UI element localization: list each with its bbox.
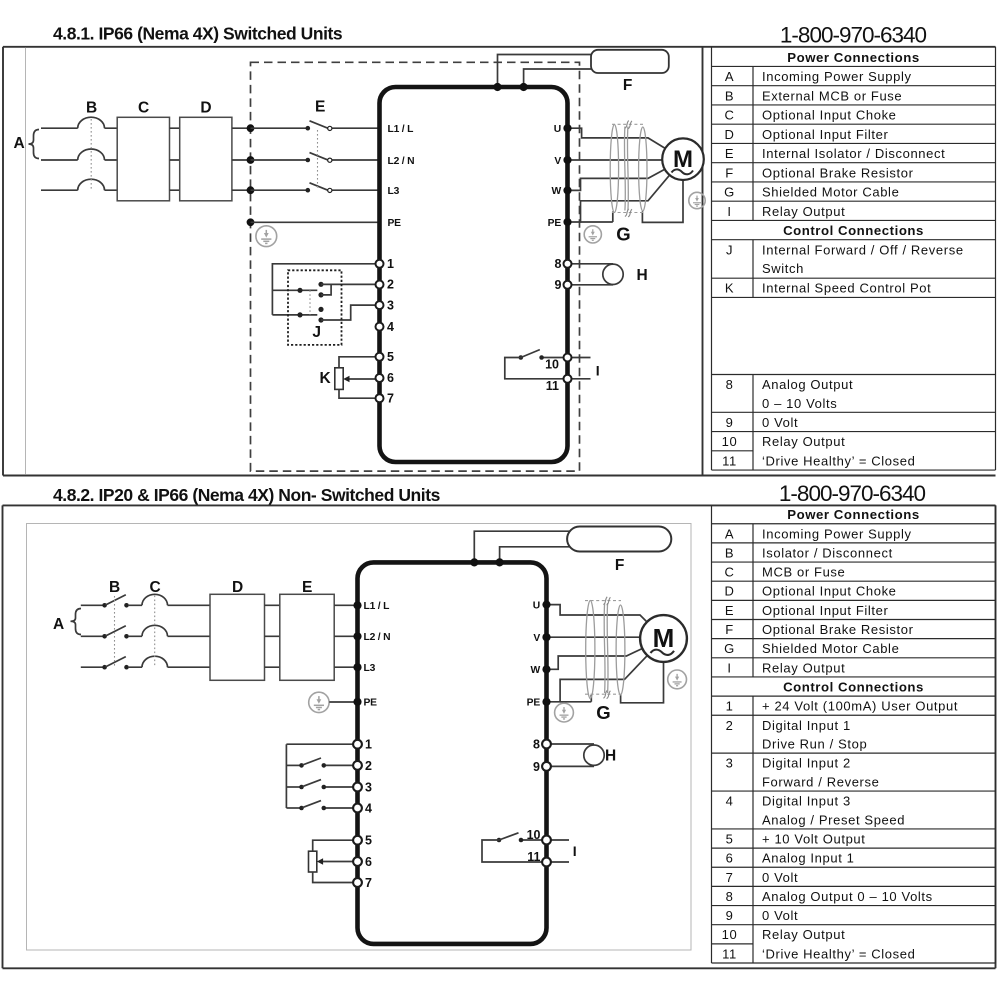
svg-text:10: 10 xyxy=(527,828,541,842)
svg-text:2: 2 xyxy=(387,278,394,292)
svg-text:C: C xyxy=(724,565,734,580)
svg-text:9: 9 xyxy=(726,415,734,430)
node brake 2 xyxy=(520,83,528,91)
frame section 2 xyxy=(3,505,996,968)
wire pot top 2 xyxy=(313,840,353,851)
wire L2 input xyxy=(41,159,117,161)
drive body 2 xyxy=(358,562,547,944)
relay output stubs xyxy=(572,358,591,379)
svg-text:7: 7 xyxy=(365,876,372,890)
pin 8-2 xyxy=(542,740,551,749)
brace A 2 xyxy=(71,609,82,635)
svg-text:2: 2 xyxy=(365,759,372,773)
svg-text:K: K xyxy=(320,370,332,387)
svg-text:4: 4 xyxy=(726,794,734,809)
relay switch I xyxy=(543,357,568,359)
terminal L2/N 2 xyxy=(353,632,361,640)
svg-text:Relay Output: Relay Output xyxy=(762,434,845,449)
wire U output xyxy=(568,128,666,148)
svg-text:4.8.2. IP20 & IP66 (Nema 4X) N: 4.8.2. IP20 & IP66 (Nema 4X) Non- Switch… xyxy=(53,485,441,505)
svg-text:Optional Input Filter: Optional Input Filter xyxy=(762,127,889,142)
svg-text:F: F xyxy=(725,165,734,180)
pin 7-2 xyxy=(353,878,362,887)
svg-text:Analog Input 1: Analog Input 1 xyxy=(762,851,855,866)
isolator B link xyxy=(114,596,116,666)
fuse C phase 2 xyxy=(142,625,168,636)
switch J pole2 wire xyxy=(272,314,317,316)
svg-text:G: G xyxy=(616,224,630,245)
svg-text:G: G xyxy=(596,702,610,723)
svg-text:Drive Run / Stop: Drive Run / Stop xyxy=(762,737,867,752)
switch J pole1 wire xyxy=(272,289,317,291)
svg-text:A: A xyxy=(53,616,64,633)
pin 2 xyxy=(376,281,384,289)
node brake 1 xyxy=(493,83,501,91)
svg-text:W: W xyxy=(530,665,540,676)
wire brake resistor 2 xyxy=(524,69,591,87)
svg-text:0 – 10 Volts: 0 – 10 Volts xyxy=(762,396,837,411)
svg-text:L3: L3 xyxy=(364,663,376,674)
svg-text:G: G xyxy=(724,185,735,200)
svg-text:J: J xyxy=(312,324,320,341)
svg-text:6: 6 xyxy=(365,855,372,869)
svg-text:Power Connections: Power Connections xyxy=(787,50,919,65)
svg-text:Shielded Motor Cable: Shielded Motor Cable xyxy=(762,641,899,656)
svg-text:4: 4 xyxy=(365,802,372,816)
svg-text:C: C xyxy=(724,108,734,123)
pin 7 xyxy=(376,394,384,402)
wire shield drain right 2 xyxy=(621,662,664,703)
wire to isolator phase2 xyxy=(251,159,380,161)
svg-text:Optional Input Choke: Optional Input Choke xyxy=(762,108,897,123)
motor earth xyxy=(689,192,705,208)
wires D to E 2 xyxy=(265,605,280,667)
svg-text:MCB or Fuse: MCB or Fuse xyxy=(762,565,845,580)
digital switch 2 xyxy=(286,764,300,766)
svg-text:8: 8 xyxy=(533,738,540,752)
svg-text:Power Connections: Power Connections xyxy=(787,507,919,522)
svg-text:6: 6 xyxy=(726,851,734,866)
isolator E pole 1 xyxy=(306,126,311,131)
svg-text:5: 5 xyxy=(726,832,734,847)
pot H loop xyxy=(572,264,614,285)
svg-text:Digital Input 1: Digital Input 1 xyxy=(762,718,851,733)
svg-text:I: I xyxy=(727,660,731,675)
svg-text:+ 10 Volt Output: + 10 Volt Output xyxy=(762,832,866,847)
node L2 junction xyxy=(247,156,255,164)
svg-text:Relay Output: Relay Output xyxy=(762,927,845,942)
wire pin2 xyxy=(321,283,376,285)
svg-text:U: U xyxy=(554,124,561,135)
table 1 grid xyxy=(712,47,996,470)
wire pot top xyxy=(339,357,376,368)
fuse C link xyxy=(154,596,156,667)
inner image box xyxy=(27,524,692,951)
svg-text:Digital Input 2: Digital Input 2 xyxy=(762,756,851,771)
shield cable core lines xyxy=(624,127,628,211)
earth symbol input 2 xyxy=(309,692,329,712)
svg-text:L2 / N: L2 / N xyxy=(388,156,415,167)
shield bottom screen 2 xyxy=(585,693,621,695)
wire pin1 xyxy=(272,264,376,315)
wire L3 input xyxy=(41,189,117,191)
wire L1 input 2 xyxy=(81,604,210,606)
wires C to D xyxy=(170,128,180,190)
svg-text:Optional Brake Resistor: Optional Brake Resistor xyxy=(762,622,914,637)
terminal U xyxy=(563,124,571,132)
filter E box 2 xyxy=(280,594,334,680)
switch J pole1 contacts xyxy=(318,282,323,287)
switch J pole2 contacts xyxy=(318,307,323,312)
frame section 1 xyxy=(3,47,996,476)
svg-text:V: V xyxy=(554,156,561,167)
wire to isolator phase3 xyxy=(251,189,380,191)
enclosure dashed boundary xyxy=(251,62,580,471)
pin 5-2 xyxy=(353,836,362,845)
svg-text:Optional Brake Resistor: Optional Brake Resistor xyxy=(762,165,914,180)
wire V output 2 xyxy=(547,636,641,638)
pin 10 xyxy=(564,354,572,362)
pin 5 xyxy=(376,353,384,361)
earth symbol PE output 2 xyxy=(555,703,574,722)
svg-text:B: B xyxy=(725,545,734,560)
svg-text:I: I xyxy=(573,843,577,859)
svg-text:8: 8 xyxy=(726,889,734,904)
svg-text:Incoming Power Supply: Incoming Power Supply xyxy=(762,69,912,84)
filter D box xyxy=(180,117,232,201)
pin 11 xyxy=(564,375,572,383)
svg-text:11: 11 xyxy=(722,946,737,961)
svg-text:PE: PE xyxy=(388,218,402,229)
svg-text:11: 11 xyxy=(527,850,540,864)
svg-text:C: C xyxy=(138,100,149,117)
node L1 junction xyxy=(247,124,255,132)
wire W output 2 xyxy=(547,649,643,670)
node PE junction xyxy=(247,218,255,226)
svg-text:F: F xyxy=(623,77,632,94)
pin 10-2 xyxy=(542,836,551,845)
wire to isolator phase1 xyxy=(251,127,380,129)
svg-text:‘Drive Healthy’ = Closed: ‘Drive Healthy’ = Closed xyxy=(762,453,915,468)
svg-text:C: C xyxy=(150,579,161,596)
svg-text:0 Volt: 0 Volt xyxy=(762,415,798,430)
pin 1-2 xyxy=(353,740,362,749)
svg-text:7: 7 xyxy=(726,870,734,885)
svg-text:B: B xyxy=(109,579,120,596)
svg-text:Internal Forward / Off / Rever: Internal Forward / Off / Reverse xyxy=(762,242,964,257)
fuse B phase 3 xyxy=(78,179,105,190)
svg-text:L3: L3 xyxy=(388,186,400,197)
svg-text:Shielded Motor Cable: Shielded Motor Cable xyxy=(762,185,899,200)
svg-text:D: D xyxy=(232,579,243,596)
svg-text:1: 1 xyxy=(365,738,372,752)
relay switch I 2 xyxy=(523,839,544,841)
svg-text:PE: PE xyxy=(527,698,541,709)
terminal W 2 xyxy=(542,665,550,673)
svg-text:PE: PE xyxy=(548,218,562,229)
drive body 1 xyxy=(380,87,568,462)
terminal PE left 2 xyxy=(353,698,361,706)
svg-text:K: K xyxy=(725,280,734,295)
wire shield drain left 2 xyxy=(560,695,591,702)
svg-text:9: 9 xyxy=(555,278,562,292)
wire PE to motor xyxy=(568,175,670,222)
svg-text:M: M xyxy=(653,623,675,653)
wires D to enclosure xyxy=(232,128,251,190)
svg-text:A: A xyxy=(725,69,734,84)
svg-text:10: 10 xyxy=(722,927,738,942)
shield bottom screen xyxy=(612,212,643,214)
terminal L1/L 2 xyxy=(353,601,361,609)
terminal L3 2 xyxy=(353,663,361,671)
switch J boundary xyxy=(288,270,342,345)
isolator E pole 3 xyxy=(306,188,311,193)
svg-text:3: 3 xyxy=(365,781,372,795)
pin 6-2 xyxy=(353,857,362,866)
isolator E link xyxy=(317,130,319,189)
isolator B pole 1 xyxy=(102,603,107,608)
svg-text:7: 7 xyxy=(387,391,394,405)
choke C box xyxy=(117,117,169,201)
svg-text:Analog Output: Analog Output xyxy=(762,377,853,392)
shield top screen 2 xyxy=(585,600,621,602)
fuse C phase 1 xyxy=(142,594,168,605)
svg-text:J: J xyxy=(726,242,733,257)
isolator B pole 2 xyxy=(102,634,107,639)
switch J link xyxy=(309,290,311,315)
fuse B link xyxy=(90,119,92,189)
svg-text:D: D xyxy=(724,127,734,142)
fuse B phase 2 xyxy=(78,149,105,160)
svg-text:0 Volt: 0 Volt xyxy=(762,908,798,923)
svg-text:External MCB or Fuse: External MCB or Fuse xyxy=(762,88,902,103)
wire pin3 xyxy=(321,305,376,320)
pin 3 xyxy=(376,301,384,309)
svg-text:Analog Output 0 – 10 Volts: Analog Output 0 – 10 Volts xyxy=(762,889,933,904)
svg-text:A: A xyxy=(725,526,734,541)
svg-text:8: 8 xyxy=(726,377,734,392)
digital switch 4 xyxy=(286,807,300,809)
svg-text:5: 5 xyxy=(387,350,394,364)
shield cable ellipse left 2 xyxy=(586,601,595,699)
svg-text:B: B xyxy=(86,100,97,117)
pot H loop 2 xyxy=(551,744,594,766)
svg-text:4.8.1. IP66 (Nema 4X) Switched: 4.8.1. IP66 (Nema 4X) Switched Units xyxy=(53,24,343,44)
svg-text:9: 9 xyxy=(726,908,734,923)
svg-text:F: F xyxy=(615,557,624,574)
pin 9 xyxy=(564,281,572,289)
terminal PE right xyxy=(563,218,571,226)
wire pot bottom xyxy=(339,389,376,398)
svg-text:E: E xyxy=(725,603,734,618)
svg-text:1-800-970-6340: 1-800-970-6340 xyxy=(779,481,926,506)
brake resistor F xyxy=(591,50,669,73)
shield cable ellipse right xyxy=(639,127,647,211)
svg-text:E: E xyxy=(315,99,325,116)
svg-text:B: B xyxy=(725,88,734,103)
svg-text:0 Volt: 0 Volt xyxy=(762,870,798,885)
svg-text:W: W xyxy=(551,186,561,197)
svg-text:L2 / N: L2 / N xyxy=(364,632,391,643)
relay output stubs 2 xyxy=(551,840,570,862)
wire U output 2 xyxy=(547,605,648,622)
motor earth 2 xyxy=(668,670,687,689)
pin 9-2 xyxy=(542,762,551,771)
svg-text:1: 1 xyxy=(726,699,734,714)
svg-text:D: D xyxy=(200,100,211,117)
shield cable core lines 2 xyxy=(604,603,608,693)
wire W output xyxy=(568,169,665,190)
node brake 2-2 xyxy=(496,558,504,566)
terminal PE right 2 xyxy=(542,698,550,706)
wire brake resistor 1 xyxy=(498,55,592,88)
wire PE to motor 2 xyxy=(547,655,648,701)
svg-text:Digital Input 3: Digital Input 3 xyxy=(762,794,851,809)
choke D box 2 xyxy=(210,594,265,680)
svg-text:D: D xyxy=(724,584,734,599)
pin 2-2 xyxy=(353,761,362,770)
svg-text:Switch: Switch xyxy=(762,261,804,276)
fuse B phase 1 xyxy=(78,117,105,128)
svg-text:H: H xyxy=(605,748,616,765)
fuse C phase 3 xyxy=(142,656,168,667)
svg-text:E: E xyxy=(725,146,734,161)
brake resistor F 2 xyxy=(567,527,671,552)
svg-text:Optional Input Filter: Optional Input Filter xyxy=(762,603,889,618)
terminal W xyxy=(563,186,571,194)
wire shield drain left xyxy=(581,212,613,223)
svg-text:H: H xyxy=(637,267,648,284)
svg-text:E: E xyxy=(302,579,312,596)
svg-text:5: 5 xyxy=(365,834,372,848)
svg-text:3: 3 xyxy=(726,756,734,771)
svg-text:Incoming Power Supply: Incoming Power Supply xyxy=(762,526,912,541)
pin 8 xyxy=(564,260,572,268)
terminal U 2 xyxy=(542,601,550,609)
isolator E pole 2 xyxy=(306,158,311,163)
svg-text:4: 4 xyxy=(387,320,394,334)
svg-text:Relay Output: Relay Output xyxy=(762,204,845,219)
svg-text:F: F xyxy=(725,622,734,637)
svg-text:Optional Input Choke: Optional Input Choke xyxy=(762,584,897,599)
svg-text:Control Connections: Control Connections xyxy=(783,680,924,695)
wire L2 input 2 xyxy=(81,635,210,637)
potentiometer K xyxy=(335,368,343,390)
svg-text:L1 / L: L1 / L xyxy=(364,601,390,612)
pin 4-2 xyxy=(353,804,362,813)
earth symbol PE output xyxy=(584,226,601,243)
motor M2 xyxy=(640,615,687,662)
svg-text:Analog / Preset Speed: Analog / Preset Speed xyxy=(762,812,905,827)
shield cable ellipse right 2 xyxy=(616,605,625,695)
wire pin1 2 xyxy=(286,744,353,808)
shield cable ellipse left xyxy=(610,125,618,213)
svg-text:I: I xyxy=(727,204,731,219)
svg-text:Relay Output: Relay Output xyxy=(762,660,845,675)
wire pot wiper 2 xyxy=(320,861,353,863)
svg-text:I: I xyxy=(596,363,600,379)
svg-text:Internal Isolator / Disconnect: Internal Isolator / Disconnect xyxy=(762,146,945,161)
shield top screen xyxy=(612,123,643,125)
svg-text:6: 6 xyxy=(387,371,394,385)
terminal V 2 xyxy=(542,633,550,641)
pin 11-2 xyxy=(542,858,551,867)
svg-text:A: A xyxy=(14,135,25,152)
svg-text:+ 24 Volt (100mA) User Output: + 24 Volt (100mA) User Output xyxy=(762,699,958,714)
node brake 1-2 xyxy=(470,558,478,566)
svg-text:11: 11 xyxy=(546,379,559,393)
svg-text:11: 11 xyxy=(722,453,737,468)
svg-text:10: 10 xyxy=(545,358,559,372)
isolator B pole 3 xyxy=(102,665,107,670)
svg-text:8: 8 xyxy=(555,257,562,271)
svg-text:V: V xyxy=(533,633,540,644)
svg-text:10: 10 xyxy=(722,434,738,449)
pin 1 xyxy=(376,260,384,268)
wire shield drain right xyxy=(642,180,683,222)
brace A xyxy=(29,130,40,159)
svg-text:L1 / L: L1 / L xyxy=(388,124,414,135)
svg-text:9: 9 xyxy=(533,760,540,774)
wire L1 input xyxy=(41,127,117,129)
svg-text:Forward / Reverse: Forward / Reverse xyxy=(762,775,879,790)
svg-text:G: G xyxy=(724,641,735,656)
node L3 junction xyxy=(247,186,255,194)
terminal V xyxy=(563,156,571,164)
motor M1 xyxy=(662,138,704,180)
svg-text:Isolator / Disconnect: Isolator / Disconnect xyxy=(762,545,893,560)
wire PE input xyxy=(251,221,380,223)
svg-text:‘Drive Healthy’ = Closed: ‘Drive Healthy’ = Closed xyxy=(762,946,915,961)
svg-text:1-800-970-6340: 1-800-970-6340 xyxy=(780,22,927,47)
wire contact link xyxy=(321,284,331,295)
table 2 grid xyxy=(712,505,996,963)
wire pot wiper xyxy=(347,378,377,380)
earth symbol input xyxy=(256,226,277,247)
svg-text:PE: PE xyxy=(364,698,378,709)
wires E to drive 2 xyxy=(334,605,357,667)
svg-text:Control Connections: Control Connections xyxy=(783,223,924,238)
svg-text:3: 3 xyxy=(387,298,394,312)
pin 4 xyxy=(376,323,384,331)
wire pot bottom 2 xyxy=(313,872,353,883)
digital switch 3 xyxy=(286,786,300,788)
svg-text:U: U xyxy=(533,600,540,611)
wire L3 input 2 xyxy=(81,666,210,668)
svg-text:1: 1 xyxy=(387,257,394,271)
potentiometer 2 xyxy=(309,851,317,872)
svg-text:Internal Speed Control Pot: Internal Speed Control Pot xyxy=(762,280,931,295)
pin 6 xyxy=(376,374,384,382)
wire brake resistor 1-2 xyxy=(474,531,570,562)
wire brake resistor 2-2 xyxy=(500,547,570,563)
inner image border xyxy=(25,48,27,475)
wire earth to PE 2 xyxy=(329,701,357,703)
pin 3-2 xyxy=(353,783,362,792)
wire V output xyxy=(568,159,663,161)
svg-text:2: 2 xyxy=(726,718,734,733)
